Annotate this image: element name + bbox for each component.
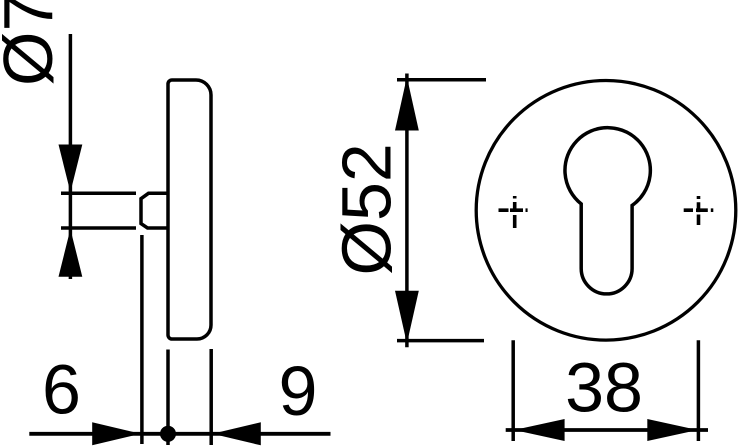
arrowhead 6 right-pointing — [92, 422, 141, 445]
dimension line 38 horizontal — [506, 428, 708, 432]
arrowhead O52 down — [395, 291, 419, 344]
extension line O7 lower — [61, 226, 136, 230]
extension line plate front face — [166, 350, 170, 446]
extension line 38 right — [697, 340, 701, 441]
screw center mark left — [499, 196, 528, 228]
dimension line O7 vertical — [69, 34, 73, 279]
extension line O7 upper — [61, 192, 136, 196]
extension line O52 top — [397, 78, 486, 82]
arrowhead O7 up — [59, 229, 83, 277]
screw center mark right — [684, 196, 714, 225]
arrowhead O52 up — [395, 77, 419, 131]
arrowhead 38 right-pointing — [647, 419, 697, 441]
euro profile cylinder keyhole — [565, 128, 650, 294]
arrowhead O7 down — [59, 145, 83, 193]
rosette plate side view — [168, 80, 211, 339]
arrowhead 9 left-pointing — [212, 422, 260, 445]
junction dot between 6 and 9 dimensions — [160, 426, 176, 442]
rosette face circle O52 — [476, 81, 736, 341]
svg-text:Ø52: Ø52 — [328, 143, 406, 275]
arrowhead 38 left-pointing — [514, 419, 564, 441]
svg-text:Ø7: Ø7 — [0, 0, 67, 86]
extension line 38 left — [511, 340, 515, 441]
extension line O52 bottom — [397, 339, 484, 343]
extension line collar front face — [140, 235, 144, 444]
svg-text:38: 38 — [565, 348, 643, 426]
collar boss side view — [141, 193, 168, 228]
svg-text:6: 6 — [42, 351, 81, 429]
svg-text:9: 9 — [279, 352, 318, 430]
dimension line O52 vertical — [405, 74, 409, 348]
dimension line 6 and 9 horizontal — [29, 432, 330, 436]
extension line plate back face — [209, 349, 213, 445]
